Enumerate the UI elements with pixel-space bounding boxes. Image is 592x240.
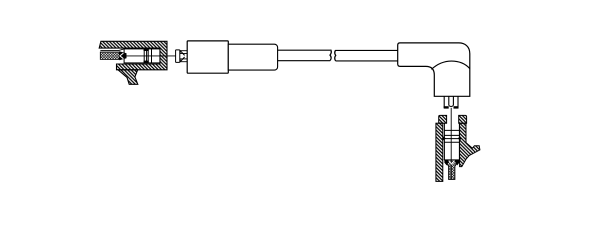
terminal prong bottom [180,59,187,62]
cable ferrule (black cone) [119,51,126,60]
left connector leg (hatched bracket with foot) [118,70,138,85]
ferrule white chevron [449,161,455,165]
axis line from stem into bottom connector [450,108,452,179]
crimp rib side diamonds [442,136,446,140]
elbow terminal stem with slot [444,96,458,108]
ignition cable end (mesh conductor) entering left connector [100,52,119,59]
bottom connector contact sleeve walls [444,123,459,160]
bottom connector mouth flange left [439,115,447,123]
cable segment 2 [336,50,398,61]
cable break left edge [330,50,331,61]
bottom connector mouth flange right [459,115,467,123]
bottom connector right wall with wing bracket [460,123,480,166]
elbow boot (90 degree distributor boot) [398,43,470,96]
crimp rib caps [144,49,149,51]
left connector inner lip line [100,48,126,50]
cable segment 1 [278,50,331,61]
boot moulding ridge line [431,61,469,69]
ferrule black shoulders [444,160,450,166]
cable break right edge [334,50,337,61]
cable sleeve behind cylinder [228,44,277,70]
bottom sleeve crimp ribs [444,130,459,142]
contact sleeve inside left connector [124,49,160,63]
bottom connector left wall (long hatched flange) [436,123,443,181]
axis line through left connector to terminal [122,55,176,57]
sleeve crimp ribs [144,49,151,63]
terminal pin plate and taper [176,50,185,63]
terminal prong top [180,51,187,54]
left plug connector body (C-shaped hatched cross-section: top flange, right wall, bottom flange) [99,41,167,70]
bottom cable ferrule funnel (mesh) [444,160,459,180]
cylindrical interference-suppression body [187,41,228,73]
